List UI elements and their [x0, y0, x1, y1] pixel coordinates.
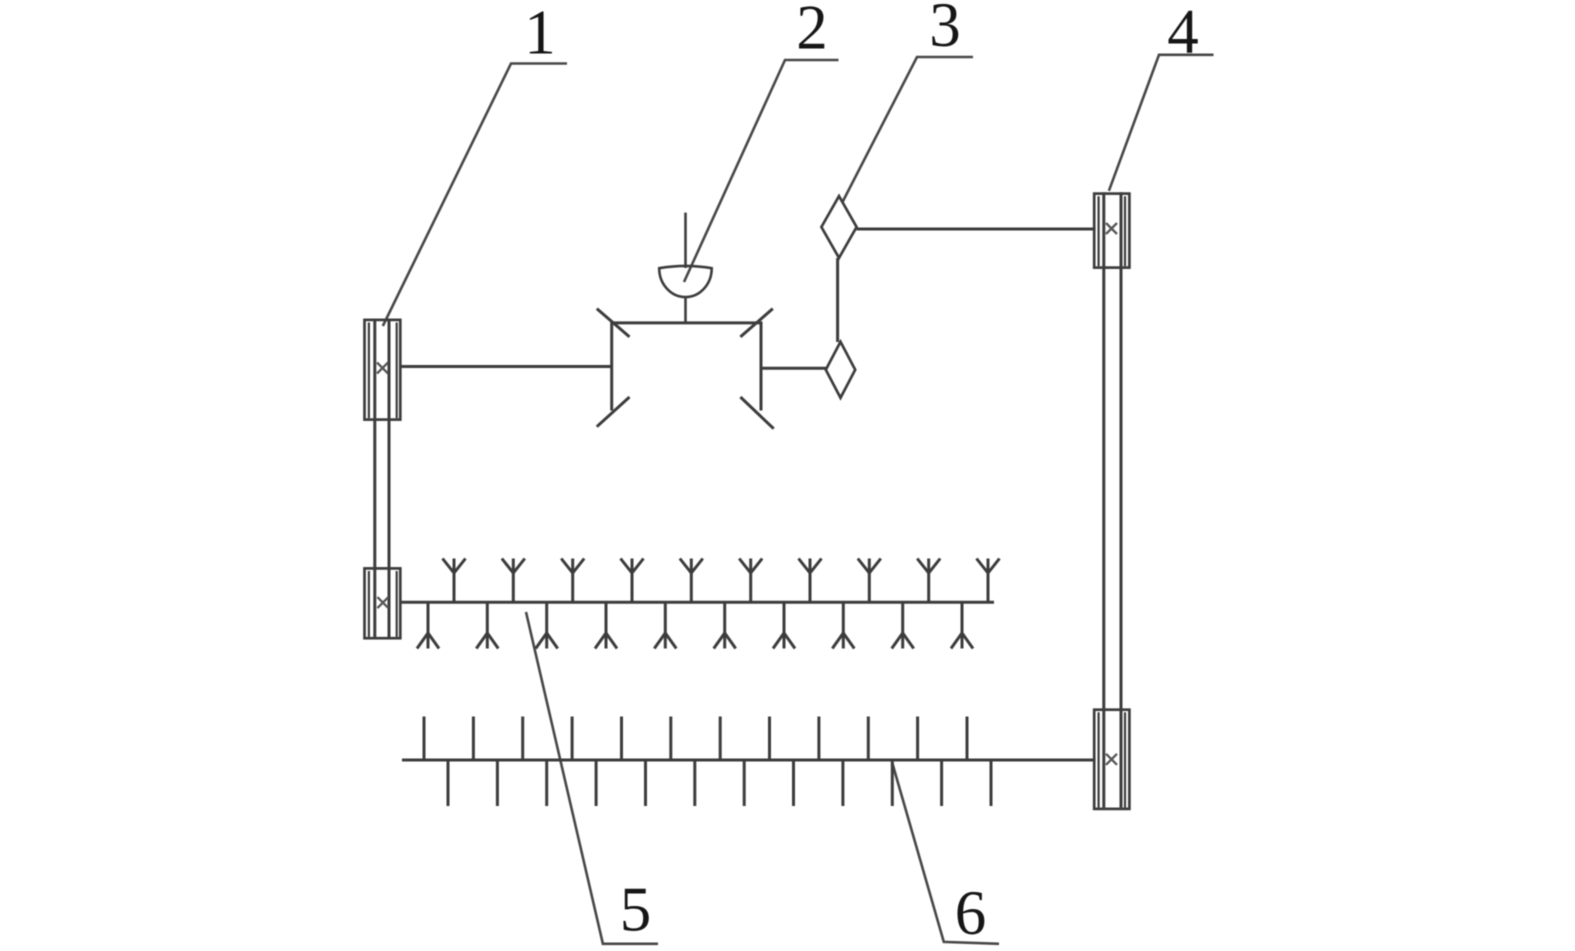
- svg-text:5: 5: [620, 875, 652, 945]
- svg-text:4: 4: [1167, 0, 1199, 67]
- svg-text:2: 2: [796, 0, 828, 63]
- svg-text:3: 3: [929, 0, 961, 60]
- svg-text:6: 6: [955, 878, 987, 948]
- svg-text:1: 1: [524, 0, 556, 68]
